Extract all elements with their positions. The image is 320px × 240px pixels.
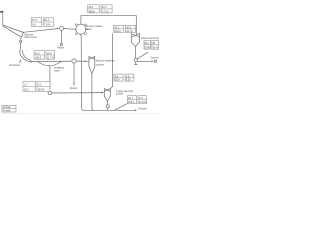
svg-text:drum: drum bbox=[86, 28, 92, 31]
svg-text:8.28: 8.28 bbox=[126, 79, 131, 82]
svg-text:65.8: 65.8 bbox=[115, 79, 120, 82]
svg-text:100.0: 100.0 bbox=[114, 30, 121, 33]
svg-text:inclined screen: inclined screen bbox=[24, 36, 37, 39]
svg-text:2.7 %: 2.7 % bbox=[102, 10, 109, 13]
svg-text:99.1: 99.1 bbox=[89, 6, 94, 9]
svg-text:7.6 %: 7.6 % bbox=[44, 24, 51, 27]
svg-text:81.1: 81.1 bbox=[145, 42, 150, 45]
svg-text:20.1: 20.1 bbox=[102, 6, 107, 9]
svg-text:578.6: 578.6 bbox=[128, 101, 135, 104]
svg-text:94.7: 94.7 bbox=[128, 97, 133, 100]
svg-text:% sink: % sink bbox=[3, 110, 11, 113]
svg-text:Medium: Medium bbox=[57, 47, 64, 50]
svg-text:4.1 %: 4.1 % bbox=[126, 30, 133, 33]
svg-text:+98.0: +98.0 bbox=[35, 57, 42, 60]
svg-text:88.3: 88.3 bbox=[44, 19, 49, 22]
svg-text:9.8: 9.8 bbox=[32, 24, 36, 27]
svg-text:Discard: Discard bbox=[139, 107, 148, 110]
svg-text:90.0: 90.0 bbox=[35, 52, 40, 55]
svg-text:5288: 5288 bbox=[144, 46, 150, 49]
svg-text:Clean coal sump: Clean coal sump bbox=[141, 37, 160, 40]
svg-text:28.2: 28.2 bbox=[24, 89, 29, 92]
svg-text:screen: screen bbox=[54, 70, 60, 73]
svg-text:58.92: 58.92 bbox=[38, 89, 45, 92]
svg-text:19.4: 19.4 bbox=[47, 52, 52, 55]
svg-text:cyclone: cyclone bbox=[116, 93, 124, 96]
svg-text:Clean coal: Clean coal bbox=[150, 56, 158, 59]
svg-text:988.8: 988.8 bbox=[89, 10, 96, 13]
svg-text:Medium: Medium bbox=[70, 87, 78, 90]
svg-text:50 %: 50 % bbox=[152, 46, 158, 49]
svg-text:27.8 %: 27.8 % bbox=[139, 101, 148, 104]
svg-text:27.1: 27.1 bbox=[139, 97, 144, 100]
svg-text:97.3: 97.3 bbox=[32, 19, 37, 22]
svg-text:cyclone: cyclone bbox=[96, 63, 105, 66]
svg-text:Oversized: Oversized bbox=[9, 64, 20, 67]
svg-text:11.7 %: 11.7 % bbox=[47, 57, 55, 60]
svg-text:1.7: 1.7 bbox=[24, 84, 28, 87]
svg-text:Dense medium: Dense medium bbox=[96, 60, 115, 63]
svg-text:3.1: 3.1 bbox=[38, 84, 42, 87]
